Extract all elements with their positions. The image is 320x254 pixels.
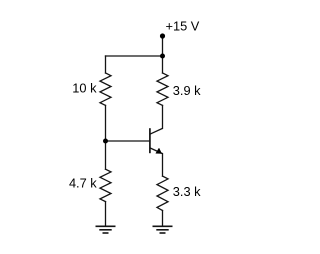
svg-text:3.3 k: 3.3 k (173, 184, 201, 199)
wire collector lead (162, 105, 164, 128)
wire right rail top (162, 56, 164, 73)
resistor R3 3.9 k (157, 73, 168, 105)
wire left rail lower (105, 141, 107, 169)
transistor Q1 (150, 128, 163, 153)
svg-text:3.9 k: 3.9 k (173, 83, 201, 98)
wire right ground lead (162, 211, 164, 227)
node junction dot base (103, 139, 108, 144)
wire left rail top (105, 56, 107, 73)
wire top horizontal (106, 55, 163, 57)
wire left rail mid (105, 105, 107, 141)
ground left (96, 226, 116, 233)
resistor R4 3.3 k (157, 176, 168, 210)
svg-text:+15 V: +15 V (166, 19, 200, 34)
resistor R1 10 k (100, 73, 111, 105)
svg-text:4.7 k: 4.7 k (69, 175, 97, 190)
resistor R2 4.7 k (100, 169, 111, 201)
wire emitter lead (162, 154, 164, 177)
wire base (106, 140, 150, 142)
node supply terminal dot (160, 33, 165, 38)
svg-text:10 k: 10 k (72, 80, 97, 95)
wire left ground lead (105, 202, 107, 227)
wire supply lead (162, 36, 164, 56)
ground right (153, 226, 173, 233)
node junction dot top (160, 54, 165, 59)
